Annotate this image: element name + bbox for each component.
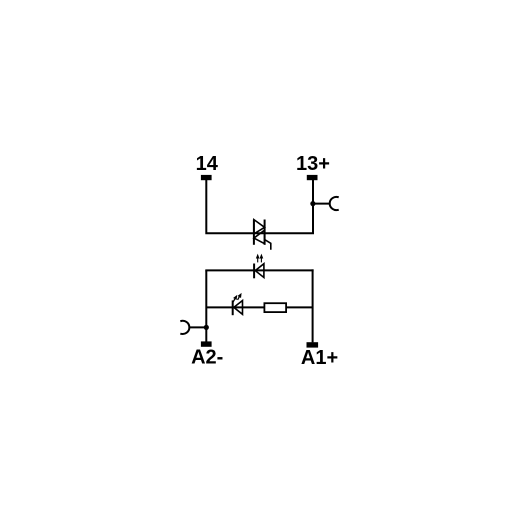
triac U1 lower triangle	[254, 230, 265, 244]
terminal label A2-	[191, 347, 223, 369]
triac U1 gate lead	[265, 240, 271, 250]
svg-text:A2-: A2-	[191, 347, 223, 369]
terminal label 13+	[296, 153, 330, 175]
node junction on 13+ lead	[310, 201, 315, 206]
LED D2 triangle	[234, 301, 243, 315]
wire junction to plug contact 13	[313, 203, 330, 205]
terminal bar 14	[201, 175, 212, 180]
LED D1 (top) triangle	[255, 264, 264, 278]
svg-text:14: 14	[196, 153, 219, 175]
svg-text:13+: 13+	[296, 153, 330, 175]
LED D1 (top) cathode bar	[253, 264, 255, 279]
plug-in contact symbol at A2 (arc opening left)	[180, 321, 189, 334]
triac U1 upper triangle	[254, 220, 265, 234]
svg-text:A1+: A1+	[301, 347, 338, 369]
LED D2 light arrows (tilted)	[233, 293, 242, 302]
LED D1 light arrows	[256, 254, 263, 263]
plug-in contact symbol at 13+ (arc opening right)	[330, 197, 339, 210]
resistor R1	[264, 303, 286, 312]
terminal bar 13+	[307, 175, 318, 180]
bottom block right vertical wire	[312, 269, 314, 342]
wire junction to plug contact A2	[189, 326, 206, 328]
wire from 14 down and across to 13+	[206, 180, 313, 233]
bottom block middle branch wire	[206, 306, 312, 308]
triac U1 right bar	[264, 220, 266, 245]
terminal label 14	[196, 153, 219, 175]
LED D2 (middle branch) cathode bar	[232, 300, 234, 315]
node junction on A2 lead	[204, 325, 209, 330]
terminal bar A1	[307, 342, 319, 347]
bottom block top wire	[205, 269, 313, 271]
triac U1 left bar	[253, 220, 255, 245]
terminal bar A2	[201, 341, 212, 346]
terminal label A1+	[301, 347, 338, 369]
bottom block left vertical wire	[205, 270, 207, 341]
